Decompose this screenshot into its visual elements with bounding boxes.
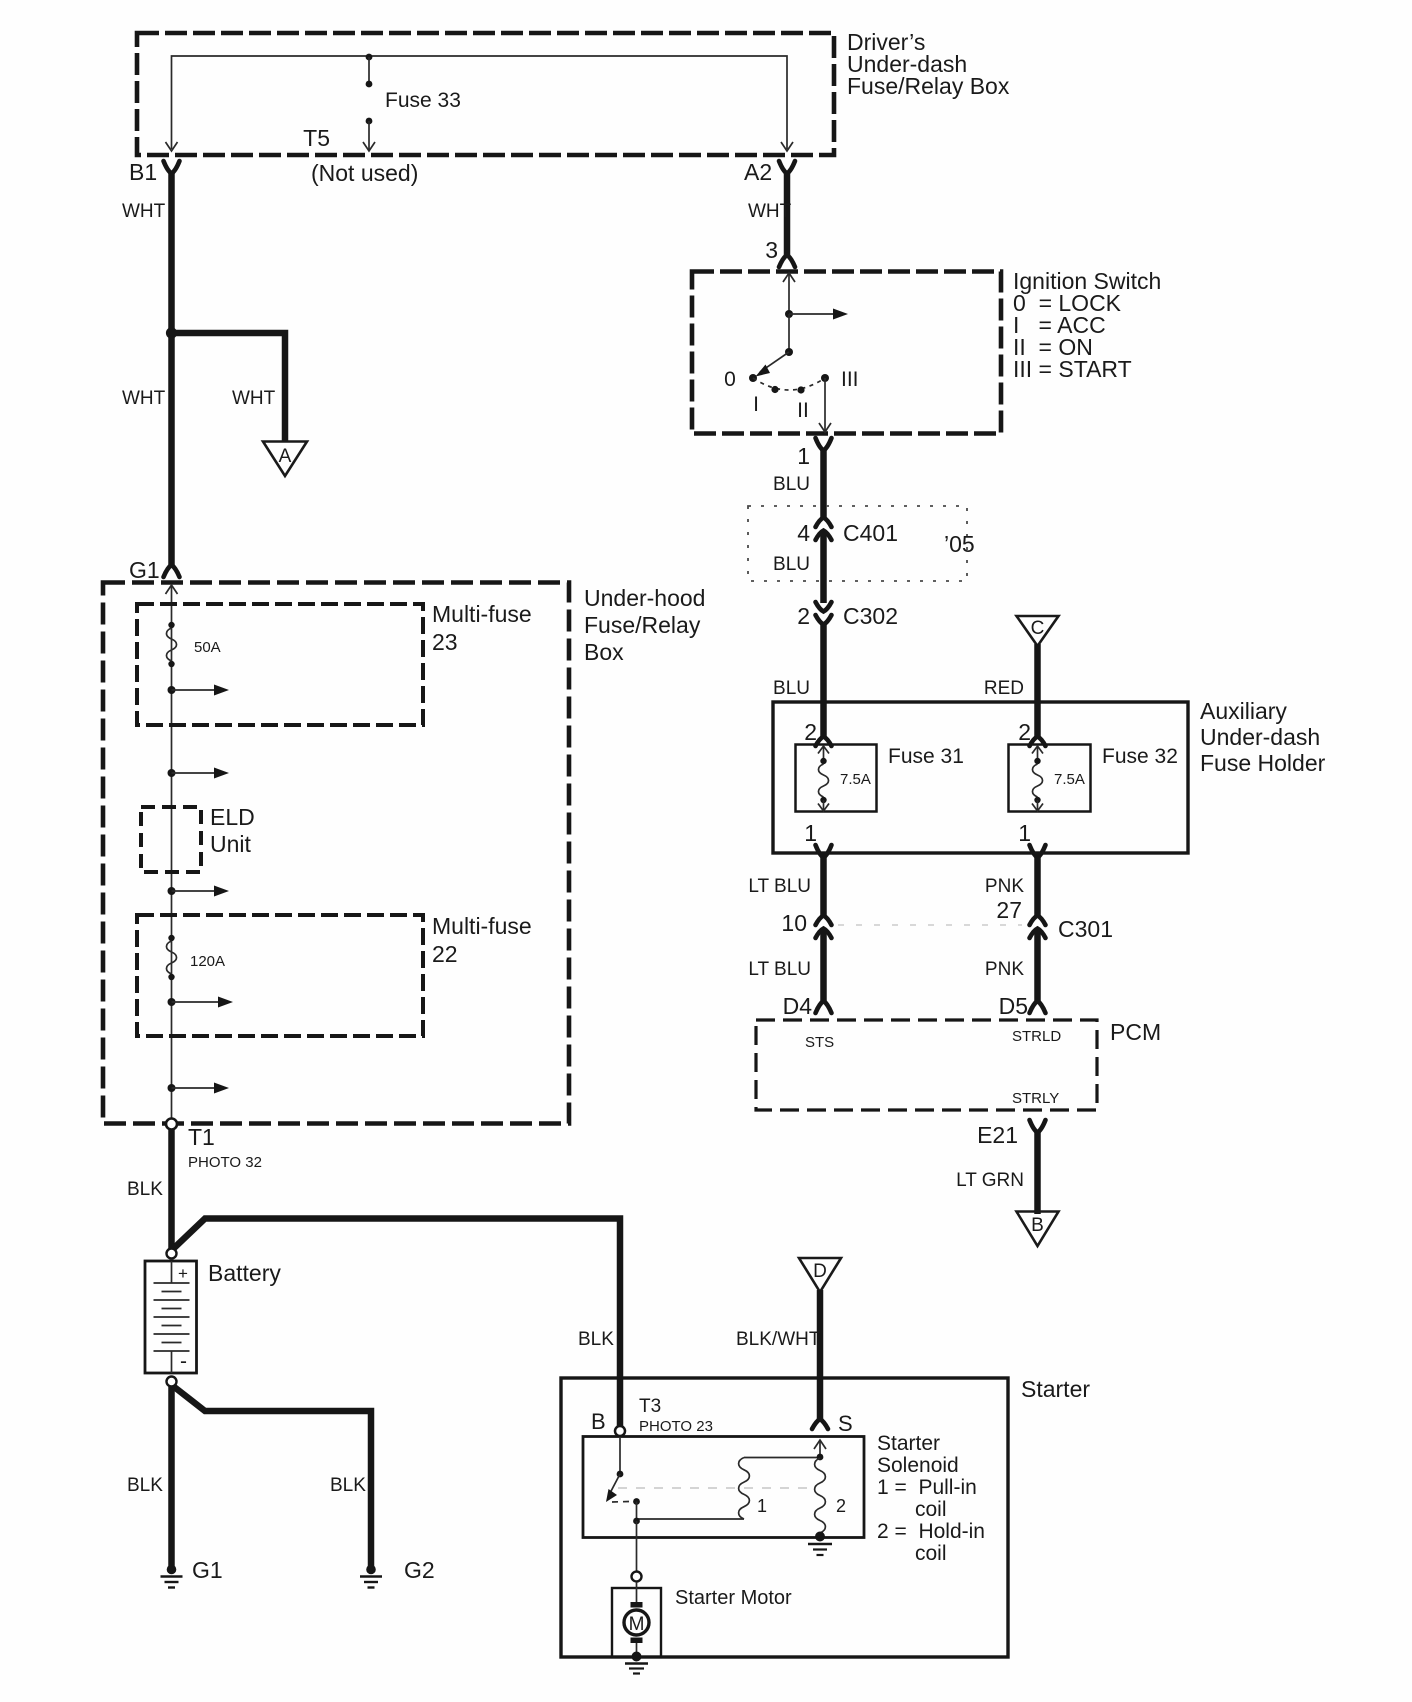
- svg-text:C: C: [1031, 618, 1045, 639]
- svg-text:7.5A: 7.5A: [1054, 771, 1085, 788]
- svg-text:120A: 120A: [190, 953, 225, 970]
- svg-text:II: II: [797, 399, 809, 422]
- terminal B1: [129, 159, 180, 185]
- svg-text:2: 2: [836, 1496, 846, 1516]
- branch arrow inside multi-fuse 23: [168, 685, 230, 696]
- svg-text:WHT: WHT: [748, 201, 792, 222]
- svg-text:LT GRN: LT GRN: [956, 1170, 1024, 1191]
- svg-text:PCM: PCM: [1110, 1019, 1161, 1045]
- battery negative terminal node: [167, 1377, 177, 1387]
- svg-text:Fuse 31: Fuse 31: [888, 745, 964, 768]
- svg-text:Under-hood: Under-hood: [584, 585, 705, 611]
- svg-text:+: +: [178, 1264, 188, 1283]
- connector C301 pin 27 (chevrons): [996, 897, 1113, 942]
- wire LT BLU fuse 31 to C301 pin 10: [748, 856, 823, 916]
- svg-text:BLU: BLU: [773, 474, 810, 495]
- svg-text:4: 4: [797, 520, 810, 546]
- svg-text:M: M: [629, 1614, 645, 1635]
- terminal G1 at under-hood box: [129, 557, 180, 583]
- ignition switch rotor blade: [756, 314, 794, 377]
- starter motor M: [624, 1582, 649, 1654]
- wire RED from triangle C to fuse holder pin 2: [984, 644, 1038, 737]
- svg-text:7.5A: 7.5A: [840, 771, 871, 788]
- svg-text:PHOTO 23: PHOTO 23: [639, 1418, 713, 1435]
- pull-in coil 1: [739, 1458, 820, 1520]
- fuse holder pin 1 (right): [1018, 820, 1045, 858]
- fuse F32 "Fuse 32" 7.5A: [1009, 745, 1178, 812]
- PCM (dashed box): [756, 1019, 1161, 1110]
- wire WHT from A2 down to ignition switch pin 3: [748, 172, 792, 256]
- terminal T1 (PHOTO 32): [166, 1119, 262, 1172]
- branch arrow below multi-fuse 23: [168, 768, 230, 779]
- svg-text:A: A: [279, 446, 292, 467]
- svg-text:T1: T1: [188, 1124, 215, 1150]
- svg-text:BLK/WHT: BLK/WHT: [736, 1329, 821, 1350]
- starter solenoid box: [583, 1437, 864, 1538]
- svg-text:C302: C302: [843, 603, 898, 629]
- internal feed line G1 to T1: [166, 585, 178, 1119]
- svg-text:STRLD: STRLD: [1012, 1028, 1061, 1045]
- svg-text:10: 10: [781, 910, 807, 936]
- multi-fuse 22 (dashed box): [137, 913, 532, 1036]
- svg-text:BLU: BLU: [773, 554, 810, 575]
- branch arrow below ELD: [168, 886, 230, 897]
- wire from solenoid switch to starter motor: [636, 1521, 638, 1571]
- svg-text:Fuse Holder: Fuse Holder: [1200, 750, 1326, 776]
- svg-text:Starter: Starter: [1021, 1376, 1090, 1402]
- svg-text:2: 2: [1018, 719, 1031, 745]
- Driver's Under-dash Fuse/Relay Box (dashed enclosure): [137, 29, 1010, 155]
- svg-text:1 = Pull-in: 1 = Pull-in: [877, 1476, 977, 1499]
- svg-text:BLU: BLU: [773, 678, 810, 699]
- svg-text:III = START: III = START: [1013, 356, 1132, 382]
- svg-text:T3: T3: [639, 1396, 661, 1417]
- Auxiliary Under-dash Fuse Holder box: [773, 698, 1326, 853]
- wire bus inside driver's box (B1 to A2): [166, 56, 794, 151]
- svg-text:’05: ’05: [944, 531, 975, 557]
- wire BLK battery positive to starter B terminal: [173, 1219, 620, 1427]
- svg-text:STS: STS: [805, 1034, 834, 1051]
- pin 1 terminal of ignition switch: [797, 438, 831, 469]
- svg-text:G2: G2: [404, 1557, 435, 1583]
- svg-text:PNK: PNK: [985, 959, 1024, 980]
- svg-text:III: III: [841, 368, 859, 391]
- ignition switch internal feed from pin 3: [783, 273, 795, 318]
- svg-text:WHT: WHT: [232, 388, 276, 409]
- connector triangle A: [263, 442, 307, 477]
- starter motor terminal node: [632, 1572, 642, 1582]
- ignition switch SW (dashed box): [692, 268, 1161, 434]
- svg-text:T5: T5: [303, 125, 330, 151]
- ELD unit (dashed box): [141, 804, 255, 872]
- svg-text:A2: A2: [744, 159, 772, 185]
- wire PNK C301 to PCM D5: [985, 929, 1038, 1002]
- wire BLK battery negative to ground G1: [127, 1386, 172, 1566]
- svg-text:S: S: [838, 1411, 853, 1436]
- pin 3 terminal of ignition switch: [765, 237, 795, 267]
- fuse holder pin 2 (left): [804, 719, 831, 746]
- svg-text:1: 1: [757, 1496, 767, 1516]
- switch position arc with I and II contacts: [753, 378, 825, 422]
- switch position 0 (LOCK): [724, 368, 757, 391]
- svg-text:Under-dash: Under-dash: [1200, 724, 1320, 750]
- ground G2: [360, 1557, 435, 1588]
- svg-text:B: B: [1031, 1215, 1044, 1236]
- svg-text:G1: G1: [192, 1557, 223, 1583]
- svg-text:D4: D4: [783, 993, 813, 1019]
- svg-text:1: 1: [797, 443, 810, 469]
- svg-text:-: -: [180, 1350, 187, 1373]
- ignition internal branch arrow (to other circuits): [789, 309, 848, 320]
- svg-text:BLK: BLK: [330, 1475, 366, 1496]
- wire BLU from C401 to C302: [773, 531, 823, 603]
- branch arrow inside multi-fuse 22: [168, 997, 234, 1008]
- svg-text:coil: coil: [915, 1498, 947, 1521]
- ground G1: [161, 1557, 223, 1588]
- fuse holder pin 1 (left): [804, 820, 831, 858]
- '05 model-year dotted box: [748, 506, 975, 581]
- svg-text:G1: G1: [129, 557, 160, 583]
- svg-text:2: 2: [804, 719, 817, 745]
- svg-text:Battery: Battery: [208, 1260, 281, 1286]
- svg-text:Unit: Unit: [210, 831, 252, 857]
- terminal A2: [744, 159, 795, 185]
- svg-text:coil: coil: [915, 1542, 947, 1565]
- svg-text:ELD: ELD: [210, 804, 255, 830]
- svg-text:Fuse/Relay: Fuse/Relay: [584, 612, 701, 638]
- wire PNK fuse 32 to C301 pin 27: [985, 856, 1038, 916]
- svg-text:(Not used): (Not used): [311, 160, 418, 186]
- svg-text:BLK: BLK: [127, 1179, 163, 1200]
- fuse element 120A: [166, 935, 225, 980]
- svg-text:D: D: [813, 1261, 827, 1282]
- solenoid internal wiring to pull-in coil: [633, 1502, 744, 1525]
- battery positive terminal node: [167, 1249, 177, 1259]
- svg-text:Solenoid: Solenoid: [877, 1454, 959, 1477]
- svg-text:Multi-fuse: Multi-fuse: [432, 601, 532, 627]
- multi-fuse 23 (dashed box): [137, 601, 532, 725]
- wire LT BLU C301 to PCM D4: [748, 929, 823, 1002]
- svg-text:Fuse 33: Fuse 33: [385, 89, 461, 112]
- terminal S: [812, 1411, 853, 1436]
- wire LT GRN from E21 to triangle B: [956, 1131, 1037, 1214]
- svg-text:0: 0: [724, 368, 736, 391]
- solenoid S feed line: [814, 1440, 826, 1460]
- wire WHT from B1 down: [122, 172, 172, 566]
- svg-text:2: 2: [797, 603, 810, 629]
- solenoid mechanical link (faint): [618, 1487, 812, 1489]
- svg-text:C401: C401: [843, 520, 898, 546]
- svg-text:BLK: BLK: [578, 1329, 614, 1350]
- fuse F31 "Fuse 31" 7.5A: [796, 745, 964, 812]
- svg-text:1: 1: [804, 820, 817, 846]
- terminal B (T3 PHOTO 23): [591, 1396, 713, 1436]
- connector triangle B: [1017, 1212, 1059, 1247]
- C301 harness faint tie line: [838, 924, 1022, 926]
- svg-text:C301: C301: [1058, 916, 1113, 942]
- svg-text:Auxiliary: Auxiliary: [1200, 698, 1287, 724]
- svg-text:LT BLU: LT BLU: [748, 876, 811, 897]
- svg-text:STRLY: STRLY: [1012, 1090, 1059, 1107]
- svg-text:Multi-fuse: Multi-fuse: [432, 913, 532, 939]
- svg-text:50A: 50A: [194, 639, 221, 656]
- wire BLK from T1 to battery: [127, 1129, 172, 1249]
- switch position III (START): [821, 368, 859, 391]
- svg-text:22: 22: [432, 941, 458, 967]
- svg-text:23: 23: [432, 629, 458, 655]
- svg-text:27: 27: [996, 897, 1022, 923]
- terminal T5 (Not used): [303, 118, 418, 186]
- starter motor box: [612, 1587, 792, 1657]
- solenoid label block: [877, 1432, 985, 1565]
- wire BLU from C302 to fuse holder pin 2: [773, 623, 823, 737]
- solenoid coil ground: [808, 1532, 832, 1556]
- svg-text:1: 1: [1018, 820, 1031, 846]
- svg-text:RED: RED: [984, 678, 1024, 699]
- starter motor ground: [625, 1652, 648, 1674]
- fuse F33 "Fuse 33": [366, 54, 461, 112]
- wire BLK/WHT from triangle D to starter S terminal: [736, 1290, 821, 1419]
- fuse element 50A: [166, 622, 220, 667]
- svg-text:D5: D5: [999, 993, 1028, 1019]
- svg-text:Box: Box: [584, 639, 624, 665]
- svg-text:Starter: Starter: [877, 1432, 940, 1455]
- fuse holder pin 2 (right): [1018, 719, 1045, 746]
- junction node on WHT wire: [166, 327, 177, 338]
- connector triangle C: [1017, 616, 1059, 646]
- svg-text:Fuse/Relay Box: Fuse/Relay Box: [847, 73, 1010, 99]
- svg-text:PNK: PNK: [985, 876, 1024, 897]
- svg-text:Fuse 32: Fuse 32: [1102, 745, 1178, 768]
- svg-text:WHT: WHT: [122, 201, 166, 222]
- svg-text:PHOTO 32: PHOTO 32: [188, 1154, 262, 1171]
- svg-text:I: I: [753, 393, 759, 416]
- solenoid switch from B: [606, 1438, 640, 1505]
- wire BLK battery negative to ground G2: [173, 1386, 371, 1566]
- svg-text:LT BLU: LT BLU: [748, 959, 811, 980]
- battery BAT: [145, 1260, 281, 1373]
- svg-text:2 = Hold-in: 2 = Hold-in: [877, 1520, 985, 1543]
- svg-text:WHT: WHT: [122, 388, 166, 409]
- Under-hood Fuse/Relay Box (dashed): [103, 583, 705, 1124]
- wire WHT branch to connector A: [172, 333, 286, 441]
- wire from III contact down to pin 1: [819, 378, 831, 432]
- svg-text:E21: E21: [977, 1122, 1018, 1148]
- connector triangle D: [799, 1258, 841, 1292]
- connector C302 pin 2 (in-line, chevrons): [797, 602, 898, 629]
- PCM pin E21: [977, 1120, 1045, 1148]
- connector C301 pin 10 (chevrons): [781, 910, 831, 938]
- wire BLU from ignition pin 1 to C401: [773, 449, 823, 517]
- connector C401 pin 4 (in-line, chevrons): [797, 518, 898, 547]
- hold-in coil 2: [815, 1458, 846, 1536]
- svg-text:B: B: [591, 1409, 606, 1434]
- Starter box: [561, 1376, 1090, 1657]
- svg-text:Starter Motor: Starter Motor: [675, 1587, 792, 1609]
- branch arrow below multi-fuse 22: [168, 1083, 230, 1094]
- PCM pin D4: [783, 993, 832, 1019]
- PCM pin D5: [999, 993, 1046, 1019]
- svg-text:3: 3: [765, 237, 778, 263]
- svg-text:B1: B1: [129, 159, 157, 185]
- svg-text:BLK: BLK: [127, 1475, 163, 1496]
